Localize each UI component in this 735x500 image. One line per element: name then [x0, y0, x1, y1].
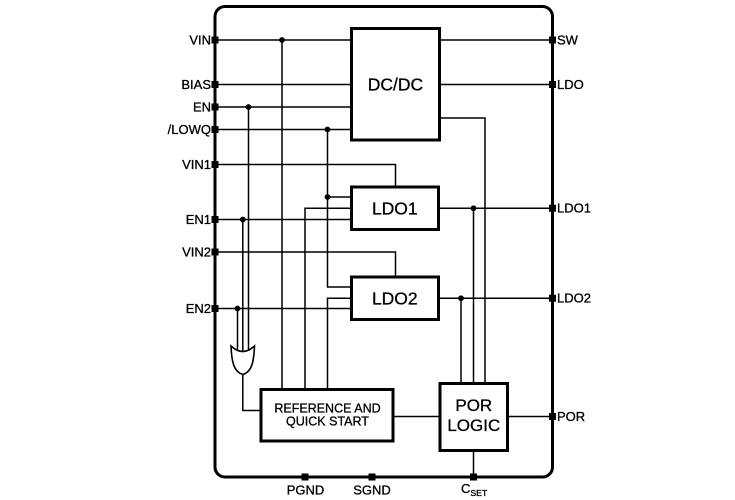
svg-text:VIN2: VIN2 — [182, 244, 211, 259]
svg-text:VIN1: VIN1 — [182, 157, 211, 172]
svg-text:QUICK START: QUICK START — [286, 415, 369, 429]
svg-text:SW: SW — [557, 32, 579, 47]
svg-text:VIN: VIN — [189, 32, 211, 47]
svg-text:EN2: EN2 — [186, 301, 211, 316]
svg-text:PGND: PGND — [287, 482, 325, 497]
svg-text:LDO2: LDO2 — [557, 291, 591, 306]
svg-text:EN: EN — [193, 99, 211, 114]
svg-text:REFERENCE AND: REFERENCE AND — [274, 401, 380, 415]
svg-text:POR: POR — [557, 409, 585, 424]
svg-text:LDO: LDO — [557, 77, 584, 92]
svg-text:/LOWQ: /LOWQ — [168, 122, 211, 137]
svg-text:DC/DC: DC/DC — [368, 75, 423, 95]
svg-text:LDO2: LDO2 — [372, 289, 418, 309]
svg-text:LDO1: LDO1 — [557, 201, 591, 216]
svg-text:EN1: EN1 — [186, 212, 211, 227]
svg-text:BIAS: BIAS — [181, 77, 211, 92]
svg-text:LDO1: LDO1 — [372, 199, 418, 219]
svg-text:POR: POR — [455, 396, 492, 415]
svg-text:LOGIC: LOGIC — [447, 416, 500, 435]
svg-text:SGND: SGND — [353, 482, 391, 497]
